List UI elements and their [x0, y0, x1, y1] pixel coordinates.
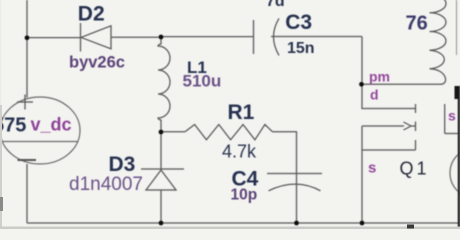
wire node pm to transformer coil: [362, 83, 441, 85]
mosfet Q1 arrow head: [404, 122, 412, 130]
svg-text:D3: D3: [109, 153, 136, 176]
svg-text:C3: C3: [285, 11, 312, 34]
svg-text:76: 76: [406, 13, 428, 35]
left edge gray strip: [0, 0, 2, 229]
capacitor C3 flat plate: [253, 20, 255, 54]
inductor 76 transformer winding: [430, 0, 447, 84]
svg-text:pm: pm: [369, 69, 390, 85]
bottom edge gray strip: [0, 227, 460, 230]
wire D2 to L1 junction: [111, 36, 161, 38]
wire L1 junction to C3: [161, 36, 253, 38]
svg-text:v_dc: v_dc: [31, 115, 72, 135]
wire R1 to C4 corner: [273, 132, 297, 223]
wire L1 junction to resistor R1: [161, 131, 185, 133]
mosfet Q1 gate-source tie: [362, 126, 416, 150]
capacitor C4 flat plate: [267, 173, 322, 175]
wire top rail left segment: [27, 37, 80, 39]
plus sign of source: [17, 95, 33, 110]
bottom rail smudge: [407, 225, 414, 229]
wire left vertical from top edge to source: [26, 0, 28, 98]
svg-text:Q1: Q1: [400, 159, 430, 179]
wire Q1 source to bottom rail: [361, 150, 363, 223]
wire corner down to node pm: [361, 37, 363, 85]
diode D2 cathode bar: [80, 23, 82, 52]
bottom rail wire: [27, 222, 458, 224]
svg-text:d1n4007: d1n4007: [69, 174, 143, 195]
svg-text:R1: R1: [228, 101, 255, 124]
junction dot C4 bottom: [294, 221, 299, 226]
right edge source circle partial: [450, 148, 460, 198]
svg-text:7d: 7d: [266, 0, 285, 10]
mosfet Q1 drain lead: [362, 84, 416, 109]
mosfet Q1 bulk lead with arrow: [362, 125, 404, 127]
svg-text:4.7k: 4.7k: [222, 142, 257, 162]
inductor L1 winding: [158, 37, 170, 133]
voltage source V1 circle: [0, 97, 80, 164]
wire D3 to bottom rail: [160, 190, 162, 223]
capacitor C4 curved plate: [269, 184, 321, 191]
junction dot top left: [25, 35, 30, 40]
capacitor C3 curved plate: [274, 18, 280, 55]
junction dot D3 bottom: [159, 221, 164, 226]
minus sign of source: [18, 159, 37, 161]
right edge component gate lead: [444, 104, 446, 134]
svg-text:D2: D2: [78, 3, 105, 26]
resistor R1 zigzag: [185, 125, 273, 140]
svg-text:s: s: [368, 160, 376, 177]
diode D3 cathode bar: [141, 168, 184, 170]
mosfet Q1 channel top segment: [415, 104, 417, 113]
svg-text:s: s: [448, 108, 456, 124]
wire source bottom lead: [26, 164, 28, 223]
wire L1 junction down to D3: [160, 132, 162, 169]
left edge dark smudge: [0, 197, 3, 211]
junction dot node pm: [359, 82, 364, 87]
svg-text:575: 575: [0, 115, 26, 137]
voltage source chord line: [2, 141, 78, 143]
svg-text:10p: 10p: [231, 187, 258, 204]
svg-text:510u: 510u: [183, 72, 222, 91]
svg-text:byv26c: byv26c: [69, 54, 125, 72]
right edge dark border strip: [458, 86, 460, 229]
wire C3 to corner: [271, 36, 362, 38]
right edge component plate: [445, 133, 458, 135]
svg-text:d: d: [370, 87, 379, 103]
diode D2 triangle: [81, 26, 111, 49]
right edge dark blob: [455, 86, 460, 99]
junction dot L1 bottom: [159, 130, 164, 135]
wire faint right edge vertical: [456, 0, 458, 55]
diode D3 triangle: [146, 170, 176, 190]
junction dot Q1 source bottom: [360, 221, 365, 226]
mosfet Q1 channel bottom segment: [415, 140, 417, 150]
svg-text:15n: 15n: [287, 40, 315, 57]
mosfet Q1 channel middle segment: [415, 122, 417, 132]
junction dot L1 top: [159, 35, 164, 40]
